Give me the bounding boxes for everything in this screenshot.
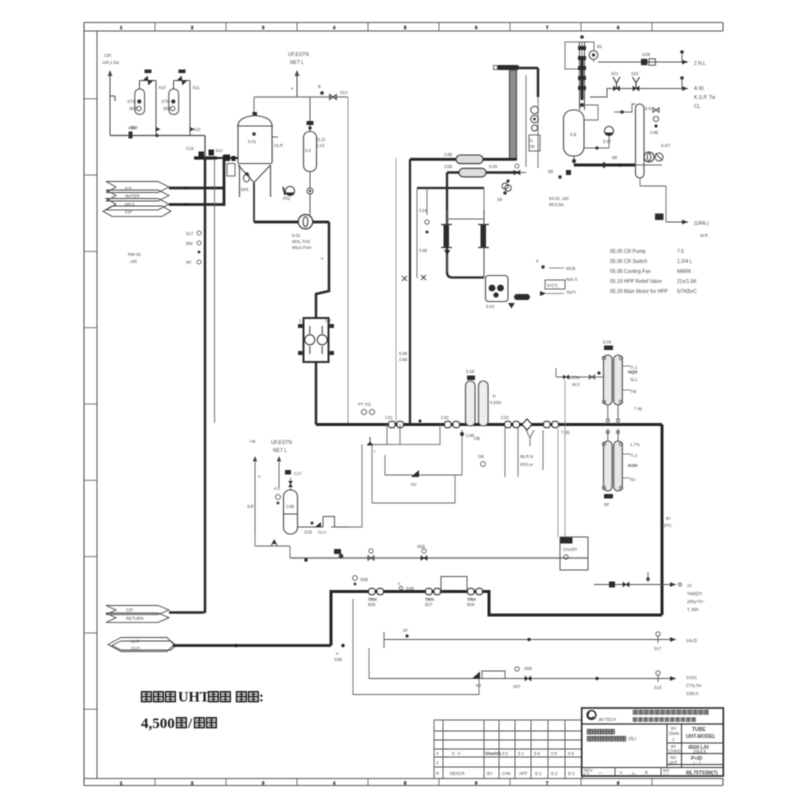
Chinese title line 1 <box>142 690 264 706</box>
svg-text:4 3: 4 3 <box>583 772 589 777</box>
wire second loop thick <box>447 171 520 174</box>
svg-text:CHART: CHART <box>563 547 578 552</box>
svg-text:UHT: UHT <box>131 639 140 644</box>
bypass bump <box>441 577 467 592</box>
junction cluster at manifold <box>194 156 217 159</box>
svg-text:+W: +W <box>249 439 255 444</box>
svg-text:DWN: DWN <box>669 731 679 736</box>
valves on loop right end <box>514 170 520 175</box>
svg-text:RF: RF <box>186 260 192 265</box>
wire right vertical from y97 <box>347 97 349 425</box>
right small frame with Y strainer <box>505 428 543 477</box>
wire bottom feed thick <box>173 644 331 647</box>
svg-text:J: J <box>672 737 674 742</box>
wire steam line <box>556 376 603 378</box>
valve cluster tank inlet <box>224 155 230 162</box>
svg-text:1-1: 1-1 <box>663 773 670 778</box>
node product-out flag (arrow left) <box>108 638 176 652</box>
svg-text:UHT: UHT <box>178 690 210 706</box>
wire link from gray pipe to hw loop <box>513 158 517 161</box>
ruler ticks left <box>84 99 97 709</box>
wire bottom return flag 1 <box>169 611 204 614</box>
svg-text:B2: B2 <box>597 44 603 49</box>
Y strainer pair <box>613 77 620 89</box>
svg-text:0 0: 0 0 <box>502 751 508 756</box>
level oval in cone <box>244 174 250 182</box>
svg-text:OB: OB <box>474 436 480 441</box>
svg-text:Tw(kj)Tc: Tw(kj)Tc <box>687 591 702 596</box>
svg-text:.: . <box>652 771 653 776</box>
svg-text:S6B: S6B <box>524 666 532 671</box>
vertical HX shell left <box>444 225 450 247</box>
svg-text:B08: B08 <box>164 106 172 111</box>
svg-text:S18: S18 <box>654 685 662 690</box>
svg-text:BW: BW <box>186 241 193 246</box>
box frame around hot water tank <box>417 187 484 189</box>
valve cluster 3 <box>505 421 520 427</box>
svg-text:S4f: S4f <box>247 504 254 509</box>
wire thick bottom steam line <box>574 164 635 167</box>
svg-text:W.R: W.R <box>700 233 708 238</box>
svg-text:2003.8: 2003.8 <box>693 749 706 754</box>
svg-text:. A .: . A . <box>630 771 637 776</box>
svg-text:TUBE: TUBE <box>692 727 706 733</box>
svg-text:5/7KBxC: 5/7KBxC <box>677 289 697 295</box>
svg-text:D.1: D.1 <box>535 771 542 776</box>
wire outlet line 1 top right <box>598 61 688 63</box>
ruler ticks top <box>120 23 652 32</box>
svg-text:k11: k11 <box>193 85 200 90</box>
drain funnel <box>271 540 277 546</box>
instrument bubbles above pipe <box>361 409 366 414</box>
HX shell B <box>459 168 486 177</box>
svg-text:K.S.P, Tw: K.S.P, Tw <box>694 95 716 101</box>
wire homogenizer discharge down <box>315 362 318 425</box>
svg-text:5B: 5B <box>548 169 553 174</box>
svg-text:2A(X): 2A(X) <box>686 675 697 680</box>
svg-text:S8: S8 <box>497 197 503 202</box>
svg-text:W.S: W.S <box>572 382 580 387</box>
hot water tank with pump <box>486 276 509 302</box>
svg-text:S21: S21 <box>611 71 619 76</box>
svg-text:2 N.L: 2 N.L <box>694 61 706 67</box>
svg-text:5.: 5. <box>530 138 534 143</box>
svg-text:94.03, 160: 94.03, 160 <box>549 196 569 201</box>
wire parallel riser <box>557 429 559 537</box>
svg-text:B28: B28 <box>467 602 475 607</box>
holding tube HX1 (U-tubes above pipe) <box>466 381 489 426</box>
svg-text:B: B <box>318 84 321 89</box>
svg-text:6B: 6B <box>612 155 617 160</box>
svg-text:5.B: 5.B <box>570 132 576 137</box>
svg-text:0 8: 0 8 <box>551 751 557 756</box>
svg-text:0 1: 0 1 <box>518 751 524 756</box>
sight glass <box>227 164 235 177</box>
svg-text:5.0b: 5.0b <box>399 351 408 356</box>
flow diverter D1 <box>522 419 532 430</box>
bottom strip cells <box>614 768 616 777</box>
svg-text:NF: NF <box>604 502 610 507</box>
svg-text:MARK: MARK <box>677 269 692 275</box>
border outer frame <box>84 23 723 786</box>
svg-text:5.04: 5.04 <box>486 304 495 309</box>
svg-text:NET L: NET L <box>290 60 304 66</box>
svg-text:PT TIS: PT TIS <box>358 402 371 407</box>
vessel chamber divider <box>284 513 298 515</box>
filter F2 group <box>162 70 202 136</box>
nozzle right <box>272 136 278 138</box>
wire outlet 3 <box>369 678 676 680</box>
filter F1 group <box>128 70 167 136</box>
wire recirc rect loop <box>353 599 479 695</box>
svg-text:MCB: MCB <box>566 266 576 271</box>
Chinese title line 2 <box>141 716 216 732</box>
svg-text:k10: k10 <box>159 85 166 90</box>
svg-text:(5.2): (5.2) <box>317 137 326 142</box>
pump P02 circle <box>298 215 312 229</box>
svg-text:5.02: 5.02 <box>292 233 301 238</box>
small rect frame top <box>565 42 582 69</box>
svg-text:S5B: S5B <box>417 544 425 549</box>
svg-text:UF,ESTN: UF,ESTN <box>288 52 309 58</box>
wires around separator <box>584 105 598 120</box>
wire line to outlet 1 (hot water) <box>594 584 676 586</box>
svg-text:k12: k12 <box>216 148 223 153</box>
svg-text:5.09: 5.09 <box>603 340 612 345</box>
svg-text:MHL.TAN: MHL.TAN <box>292 239 310 244</box>
svg-text:D.3: D.3 <box>568 771 575 776</box>
svg-text:S17: S17 <box>654 646 662 651</box>
wire riser arrows <box>254 462 256 529</box>
wire cross link <box>447 218 484 220</box>
wire U loop left <box>447 173 484 278</box>
svg-text:B: B <box>645 770 648 775</box>
wire riser to chart <box>564 380 566 537</box>
svg-text:BY: BY <box>487 771 493 776</box>
svg-text:TI.2: TI.2 <box>630 453 638 458</box>
svg-text:5.82N: 5.82N <box>490 400 501 405</box>
wire down from y222 <box>316 222 329 318</box>
svg-text:CL: CL <box>694 104 701 110</box>
svg-text:15.R: 15.R <box>274 143 283 148</box>
svg-text:D.2: D.2 <box>551 771 558 776</box>
svg-text:DB: DB <box>478 454 484 459</box>
homogenizer block twin pumps <box>304 318 329 362</box>
valve cluster B1 <box>369 588 384 594</box>
wire outlet 2 <box>384 639 676 641</box>
svg-text:C13: C13 <box>317 143 325 148</box>
svg-text:ICE: ICE <box>125 186 132 191</box>
dark marks near bottom thick <box>566 170 571 175</box>
wire vessel outlet with bump <box>298 517 349 528</box>
svg-text:APP: APP <box>519 771 528 776</box>
svg-text:1.7%: 1.7% <box>630 442 640 447</box>
svg-text:B+: B+ <box>666 516 672 521</box>
svg-text:TkPT: TkPT <box>566 290 576 295</box>
svg-text:JM TECH: JM TECH <box>598 717 616 722</box>
node feed flag 1 <box>103 182 171 217</box>
left cell bold text <box>587 729 614 734</box>
svg-text:AIR: AIR <box>130 259 137 264</box>
svg-text:C4B: C4B <box>650 130 658 135</box>
wire header drop <box>204 136 206 159</box>
svg-text:CLA: CLA <box>318 530 326 535</box>
svg-text:S1B: S1B <box>304 530 312 535</box>
steam header cap <box>497 65 519 70</box>
svg-text:B26: B26 <box>368 602 376 607</box>
cooler HX bank 2 <box>607 429 609 441</box>
wire feed pipe B <box>169 203 224 206</box>
svg-text:S6B: S6B <box>360 577 368 582</box>
svg-text:C31: C31 <box>385 415 393 420</box>
wire left downcomer <box>409 159 411 424</box>
svg-text:CIP,: CIP, <box>104 53 112 58</box>
wire CIP header <box>110 135 205 137</box>
svg-text:C32: C32 <box>441 415 449 420</box>
svg-text:5.0: 5.0 <box>305 148 311 153</box>
svg-text:0 - 0: 0 - 0 <box>452 751 461 756</box>
svg-text:6TC: 6TC <box>664 523 672 528</box>
wire right downcomer thick <box>661 425 664 616</box>
dark capsule <box>514 294 530 300</box>
svg-text:7.4p: 7.4p <box>634 406 643 411</box>
svg-text:WATER: WATER <box>125 194 140 199</box>
separator vessel <box>564 110 585 156</box>
wire CIP riser with arrow <box>108 70 115 136</box>
condensate pump <box>644 152 654 162</box>
wire insulated double pipe down <box>510 70 517 160</box>
svg-text:C5B: C5B <box>444 164 452 169</box>
recirculation line 1 <box>331 425 462 528</box>
wire feed pipe A <box>169 187 224 190</box>
svg-text:1.3: 1.3 <box>299 318 305 323</box>
wire pump suction header y222 <box>254 221 329 224</box>
svg-text:05.10 HPP Relief Valve: 05.10 HPP Relief Valve <box>610 279 662 285</box>
steam injector column <box>579 42 581 110</box>
valve cluster B2 <box>426 588 441 594</box>
svg-text:P01: P01 <box>283 196 291 201</box>
svg-text:KF: KF <box>403 628 409 633</box>
logo <box>587 711 596 720</box>
svg-text:TI: TI <box>492 394 496 399</box>
wire long CIP return vertical <box>204 158 207 613</box>
valve cluster B3 <box>468 588 483 594</box>
svg-text:MLR.N: MLR.N <box>520 454 533 459</box>
ruler ticks bottom <box>120 779 652 786</box>
svg-text:C16: C16 <box>186 146 194 151</box>
svg-text:TW: TW <box>630 389 637 394</box>
svg-text:KTB: KTB <box>162 99 170 104</box>
svg-text:CIP: CIP <box>125 210 132 215</box>
instruments right <box>653 108 659 113</box>
svg-text:NV: NV <box>411 482 417 487</box>
svg-text:0 8: 0 8 <box>568 751 574 756</box>
wire main process pipe <box>316 423 662 426</box>
small circles below hw loop left <box>502 183 508 189</box>
svg-text:RETURN: RETURN <box>126 616 143 621</box>
svg-text:4.5: 4.5 <box>274 486 280 491</box>
wire condensate down and out <box>639 178 641 186</box>
svg-text:MILK: MILK <box>125 202 135 207</box>
wire cap to right <box>519 67 538 70</box>
svg-text:24L/D: 24L/D <box>686 638 697 643</box>
wire column top hook <box>582 42 594 50</box>
svg-text:5.05: 5.05 <box>489 164 498 169</box>
svg-text:S3B: S3B <box>334 657 342 662</box>
pump P01 <box>285 186 294 195</box>
company name row (simulated CJK) <box>633 710 708 714</box>
valve on recirc <box>367 441 373 446</box>
wire y558 tempered line <box>290 557 588 559</box>
weld cross marks <box>402 276 407 281</box>
svg-text:DESCR: DESCR <box>450 771 465 776</box>
valve V2 <box>178 76 186 84</box>
svg-text:05.20 Main Motor for HPP: 05.20 Main Motor for HPP <box>610 289 668 295</box>
wire riser to tank manifold <box>223 155 226 206</box>
svg-text:C4B: C4B <box>419 248 427 253</box>
svg-text:C4B: C4B <box>444 152 452 157</box>
svg-text:AIR,1.5w: AIR,1.5w <box>102 60 120 65</box>
svg-text:RW 03: RW 03 <box>128 252 141 257</box>
HX shell A <box>456 155 483 164</box>
wire drop to tank vent <box>253 97 255 116</box>
svg-text:1 : 1: 1 : 1 <box>693 761 702 766</box>
svg-text:R: R <box>436 771 439 776</box>
title block frame <box>582 708 724 776</box>
svg-text:06: 06 <box>530 144 535 149</box>
svg-text:C4B: C4B <box>399 357 407 362</box>
wire thin parallel line <box>214 160 216 423</box>
marks on bottom feed <box>341 644 344 647</box>
drain triangle <box>508 303 515 309</box>
svg-text:1.0/4 L: 1.0/4 L <box>677 259 693 265</box>
svg-text:C4B: C4B <box>286 504 294 509</box>
wire bottom return thick <box>331 592 662 646</box>
svg-text:MILK.Pum: MILK.Pum <box>292 245 312 250</box>
node return flag (chevron) <box>106 606 169 623</box>
valve cluster 2 <box>445 421 460 427</box>
svg-text:4,500: 4,500 <box>141 716 175 732</box>
svg-text:OUT: OUT <box>131 646 140 651</box>
svg-text:UHT-MODEL: UHT-MODEL <box>686 734 716 740</box>
svg-text:CTN,Tw: CTN,Tw <box>686 683 702 688</box>
wire outlet line 2 <box>590 89 688 98</box>
column extra marks <box>578 56 586 60</box>
svg-text:4U: 4U <box>630 477 635 482</box>
right grid <box>582 724 724 768</box>
sample point <box>353 576 358 581</box>
svg-text:21x/1.5K: 21x/1.5K <box>677 279 697 285</box>
svg-text:KRS.w: KRS.w <box>520 462 534 467</box>
svg-text:S10: S10 <box>193 127 201 132</box>
svg-text:C19: C19 <box>419 208 427 213</box>
svg-text:(3),t: (3),t <box>628 736 636 741</box>
chart recorder box <box>560 537 588 570</box>
valve cluster 1 <box>389 421 404 427</box>
wire horizontal line y97 <box>254 96 348 98</box>
svg-text:5Y(?): 5Y(?) <box>547 283 558 288</box>
svg-text:KTB: KTB <box>128 99 136 104</box>
svg-text:CHKD: CHKD <box>669 749 681 754</box>
svg-text:S09: S09 <box>130 125 138 130</box>
svg-text:Sheet#1: Sheet#1 <box>485 751 502 756</box>
svg-text:99.8,5w: 99.8,5w <box>549 202 565 207</box>
vacuum pump circle <box>604 126 613 135</box>
svg-text:5.N: 5.N <box>645 106 652 111</box>
svg-text:0 8: 0 8 <box>534 751 540 756</box>
valve on line <box>330 94 337 99</box>
svg-text:SLT: SLT <box>186 231 194 236</box>
svg-text:05.06 CR Switch: 05.06 CR Switch <box>610 259 647 265</box>
svg-text:C33: C33 <box>501 415 509 420</box>
svg-text:B27: B27 <box>425 602 433 607</box>
svg-text:1.3: 1.3 <box>325 318 331 323</box>
svg-text::: : <box>259 690 264 706</box>
valve V1 <box>144 76 152 84</box>
border inner frame <box>84 31 723 779</box>
svg-text:S22: S22 <box>631 71 639 76</box>
svg-text:05.05 CR Pump: 05.05 CR Pump <box>610 249 646 255</box>
svg-text:NQN: NQN <box>628 370 637 375</box>
svg-text:05.08 Cooling Fan: 05.08 Cooling Fan <box>610 269 651 275</box>
svg-text:T, 99h: T, 99h <box>687 607 699 612</box>
svg-text:S14: S14 <box>340 90 348 95</box>
tank T1 balance tank <box>237 116 273 198</box>
wire tank outlet to pump line <box>253 183 255 222</box>
svg-text:C17: C17 <box>294 471 302 476</box>
svg-text:5.07: 5.07 <box>603 139 612 144</box>
svg-text:NET L: NET L <box>273 448 287 454</box>
svg-text:A.W,: A.W, <box>694 86 705 92</box>
wire hw connect <box>520 172 526 174</box>
valve on CIP header <box>129 132 133 139</box>
vertical HX shell right <box>481 225 487 247</box>
C4B labels <box>460 432 464 436</box>
svg-text:KOH: KOH <box>628 463 637 468</box>
revision table <box>434 720 582 779</box>
small ticks on pipe <box>360 423 363 426</box>
svg-text:UHT: UHT <box>669 760 678 765</box>
svg-text:/: / <box>187 716 193 732</box>
wire hot water top loop thick <box>410 158 513 161</box>
check valve dark <box>411 470 419 477</box>
svg-text:S4B: S4B <box>406 586 414 591</box>
valve cluster 4 <box>544 421 559 427</box>
svg-text:S3M,S: S3M,S <box>686 691 699 696</box>
instrument column <box>525 75 527 167</box>
heater HX bank 1 <box>604 355 623 405</box>
svg-text:CIP: CIP <box>126 608 133 613</box>
svg-text:10: 10 <box>687 583 692 588</box>
dosing vessel <box>284 490 298 534</box>
vessel V2 deaerator <box>304 132 317 172</box>
svg-text:S2B: S2B <box>642 52 650 57</box>
right condenser column <box>636 104 645 178</box>
svg-text:B05: B05 <box>241 187 249 192</box>
svg-text:(UPA-): (UPA-) <box>694 221 709 227</box>
svg-text:S.KT: S.KT <box>661 143 671 148</box>
svg-text:5.01: 5.01 <box>248 139 257 144</box>
svg-text:7.0B: 7.0B <box>561 430 570 435</box>
svg-text:SL1: SL1 <box>630 377 638 382</box>
svg-text:CHK: CHK <box>502 771 511 776</box>
svg-text:5.08: 5.08 <box>466 369 475 374</box>
svg-text:S07: S07 <box>513 684 521 689</box>
wire riser with arrow <box>296 76 298 97</box>
svg-text:B07: B07 <box>130 106 138 111</box>
svg-text:200y+/h~: 200y+/h~ <box>687 599 705 604</box>
svg-text:Rek X: Rek X <box>566 277 578 282</box>
